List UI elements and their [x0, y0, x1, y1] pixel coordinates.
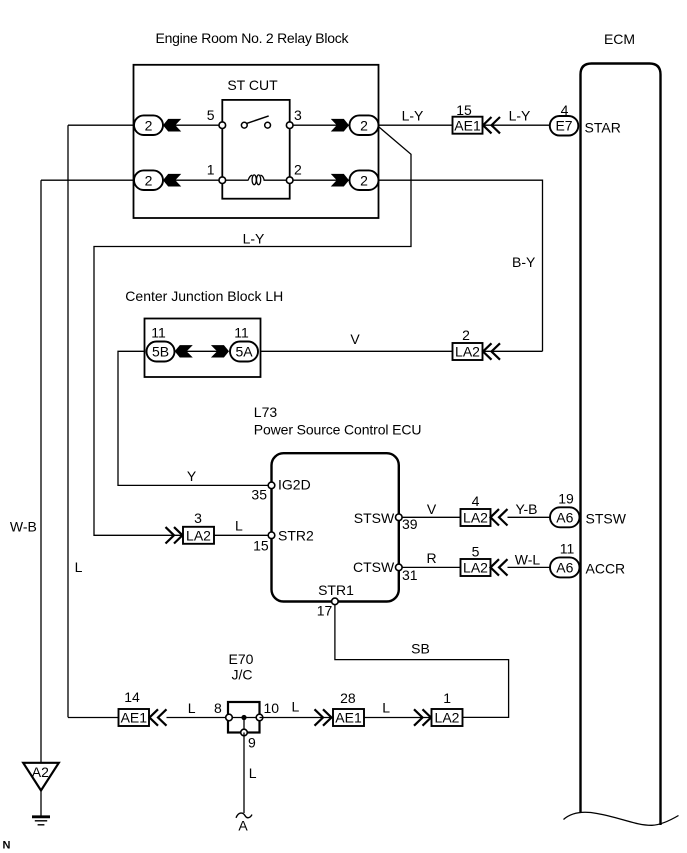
wire row2 left — [41, 179, 136, 181]
ECM bottom wavy break — [564, 812, 679, 825]
svg-text:ACCR: ACCR — [586, 560, 626, 576]
connector box LA2 4 — [461, 509, 491, 526]
svg-text:4: 4 — [472, 493, 480, 509]
wire J/C to A break — [243, 733, 245, 814]
svg-text:L: L — [235, 517, 243, 533]
svg-text:31: 31 — [402, 567, 418, 583]
wire STSW row — [399, 516, 461, 518]
svg-text:B-Y: B-Y — [512, 254, 536, 270]
connector box AE1 15 — [453, 117, 483, 134]
svg-text:Engine Room No. 2 Relay Block: Engine Room No. 2 Relay Block — [156, 30, 350, 46]
arrow chevron left row1 — [164, 119, 181, 131]
connector oval 2 row2 right — [350, 170, 379, 190]
relay pin circles — [219, 122, 293, 184]
wire LA2 5 to A6 — [508, 566, 551, 568]
svg-text:2: 2 — [360, 172, 368, 188]
ground symbol — [32, 817, 50, 825]
wire row2 pin2 to right oval — [264, 179, 353, 181]
svg-text:A6: A6 — [556, 560, 573, 576]
svg-text:ST CUT: ST CUT — [227, 77, 278, 93]
svg-text:E7: E7 — [555, 117, 572, 133]
svg-text:10: 10 — [264, 700, 280, 716]
svg-text:L73: L73 — [254, 404, 278, 420]
svg-text:2: 2 — [462, 327, 470, 343]
svg-text:35: 35 — [251, 487, 267, 503]
wire 5B to IG2D — [118, 351, 272, 485]
wire STR1 SB route — [335, 605, 509, 718]
wire LA2 2 to B-Y — [483, 350, 543, 352]
connector oval 2 row1 left — [134, 115, 163, 135]
svg-text:L: L — [75, 559, 83, 575]
svg-text:5A: 5A — [235, 344, 253, 360]
wire STR2 row — [165, 534, 183, 536]
arrow double chevron AE1 14 — [150, 709, 167, 725]
wire row1 oval to pin 5 — [163, 124, 222, 126]
svg-text:LA2: LA2 — [435, 710, 460, 726]
wire AE1 to E7 — [483, 124, 551, 126]
svg-text:IG2D: IG2D — [278, 476, 311, 492]
svg-text:STSW: STSW — [354, 510, 395, 526]
svg-text:E70: E70 — [229, 651, 254, 667]
svg-text:J/C: J/C — [232, 667, 253, 683]
ground connector triangle A2 — [23, 763, 59, 791]
svg-text:LA2: LA2 — [463, 560, 488, 576]
arrow double chevron AE1 15 — [483, 117, 500, 133]
arrow chevron right row2 — [332, 174, 349, 186]
wire J/C internal — [229, 717, 260, 719]
svg-text:CTSW: CTSW — [353, 559, 395, 575]
wire AE1 28 to LA2 1 — [364, 717, 432, 719]
connector oval 2 row2 left — [134, 170, 163, 190]
break squiggle A — [236, 813, 252, 818]
connector oval 5A — [230, 342, 258, 362]
wire AE1 14 to J/C — [167, 717, 229, 719]
svg-text:1: 1 — [207, 161, 215, 177]
svg-text:LA2: LA2 — [463, 510, 488, 526]
svg-text:L: L — [249, 765, 257, 781]
connector box LA2 3 — [183, 527, 214, 544]
svg-text:L: L — [188, 700, 196, 716]
svg-text:LA2: LA2 — [455, 344, 480, 360]
connector oval A6 11 — [550, 557, 580, 577]
svg-text:V: V — [427, 501, 437, 517]
wire row1 left — [68, 124, 136, 126]
connector box LA2 2 — [453, 343, 483, 360]
svg-text:2: 2 — [145, 117, 153, 133]
svg-text:2: 2 — [294, 161, 302, 177]
svg-text:A2: A2 — [32, 764, 49, 780]
svg-text:9: 9 — [248, 734, 256, 750]
junction dot J/C — [241, 715, 246, 720]
svg-text:N: N — [3, 840, 11, 852]
connector oval A6 19 — [550, 507, 580, 527]
arrow double chevron AE1 28 — [315, 709, 332, 725]
relay coil — [248, 175, 264, 185]
arrow chevron left row2 — [164, 174, 181, 186]
svg-text:L-Y: L-Y — [243, 230, 265, 246]
wire row2 right B-Y — [379, 180, 543, 351]
connector box LA2 5 — [461, 559, 491, 576]
J/C pin circles — [226, 714, 263, 736]
svg-text:AE1: AE1 — [121, 710, 148, 726]
wire vertical L from row1 to bottom row — [67, 125, 69, 717]
arrow chevron right row1 — [332, 119, 349, 131]
arrow double chevron LA2 5 — [491, 559, 508, 575]
connector oval 2 row1 right — [350, 115, 379, 135]
svg-text:8: 8 — [214, 700, 222, 716]
wire 5A to LA2 2 — [261, 350, 454, 352]
connector box LA2 1 — [432, 709, 463, 726]
svg-text:3: 3 — [194, 510, 202, 526]
svg-text:Center Junction Block LH: Center Junction Block LH — [125, 288, 283, 304]
svg-text:Y: Y — [187, 468, 197, 484]
wire between 5B and 5A — [180, 350, 224, 352]
wire row1 pin3 to right oval — [290, 124, 352, 126]
ECU pin circles — [268, 482, 402, 605]
svg-text:SB: SB — [411, 641, 430, 657]
svg-text:11: 11 — [151, 324, 166, 340]
svg-text:R: R — [426, 550, 436, 566]
connector oval E7 — [550, 116, 579, 136]
arrow double chevron LA2 3 — [166, 527, 183, 543]
svg-text:5B: 5B — [152, 344, 169, 360]
svg-text:15: 15 — [456, 102, 472, 118]
svg-text:17: 17 — [317, 602, 333, 618]
wire row1 right to AE1 — [379, 124, 453, 126]
connector oval 5B — [147, 342, 175, 362]
svg-text:STSW: STSW — [586, 510, 627, 526]
svg-text:11: 11 — [560, 540, 575, 556]
svg-text:W-L: W-L — [515, 551, 541, 567]
junction J/C box — [228, 702, 260, 733]
arrow chevron left 5B — [175, 346, 192, 358]
svg-text:2: 2 — [360, 117, 368, 133]
arrow double chevron LA2 2 — [483, 343, 500, 359]
svg-text:STAR: STAR — [585, 120, 621, 136]
wire J/C to AE1 28 — [260, 717, 334, 719]
svg-text:L: L — [382, 699, 390, 715]
svg-text:Y-B: Y-B — [515, 501, 537, 517]
svg-text:STR2: STR2 — [278, 528, 314, 544]
relay ST CUT inner box — [222, 100, 289, 199]
power source control ECU box — [272, 453, 399, 601]
svg-text:V: V — [350, 331, 360, 347]
wire A2 to ground — [40, 791, 42, 816]
arrow double chevron LA2 4 — [491, 509, 508, 525]
svg-text:5: 5 — [207, 107, 215, 123]
svg-text:W-B: W-B — [10, 518, 37, 534]
wire J/C internal vertical — [243, 718, 245, 733]
svg-text:L: L — [292, 699, 300, 715]
svg-text:STR1: STR1 — [318, 582, 354, 598]
wire LA2 3 to STR2 — [214, 534, 272, 536]
svg-text:28: 28 — [340, 690, 356, 706]
svg-text:AE1: AE1 — [454, 117, 481, 133]
wire vertical W-B — [40, 180, 42, 763]
svg-text:14: 14 — [124, 689, 140, 705]
wire CTSW row — [399, 566, 461, 568]
svg-text:A6: A6 — [556, 509, 573, 525]
switch contact circles and blade — [241, 116, 270, 128]
relay block outer box — [134, 65, 379, 218]
svg-text:39: 39 — [402, 516, 418, 532]
svg-text:3: 3 — [294, 107, 302, 123]
svg-text:L-Y: L-Y — [509, 107, 531, 123]
svg-text:15: 15 — [253, 537, 269, 553]
svg-text:A: A — [238, 818, 248, 834]
connector box AE1 14 — [119, 709, 150, 726]
junction block box — [145, 319, 261, 378]
wire diagonal from right oval — [94, 127, 411, 536]
svg-text:5: 5 — [472, 543, 480, 559]
wire row2 pin1 lead — [163, 179, 249, 181]
connector box AE1 28 — [333, 709, 364, 726]
svg-text:LA2: LA2 — [186, 527, 211, 543]
svg-text:L-Y: L-Y — [402, 107, 424, 123]
svg-text:11: 11 — [234, 324, 249, 340]
wire LA2 4 to A6 — [508, 516, 551, 518]
svg-text:2: 2 — [145, 172, 153, 188]
svg-text:ECM: ECM — [604, 31, 635, 47]
wire bottom row left — [68, 717, 119, 719]
svg-text:Power Source Control ECU: Power Source Control ECU — [254, 421, 422, 437]
svg-text:19: 19 — [558, 490, 574, 506]
ECM body — [581, 64, 661, 826]
arrow chevron right 5A — [212, 346, 229, 358]
svg-text:AE1: AE1 — [335, 710, 362, 726]
svg-text:1: 1 — [443, 690, 451, 706]
arrow double chevron LA2 1 — [414, 709, 431, 725]
